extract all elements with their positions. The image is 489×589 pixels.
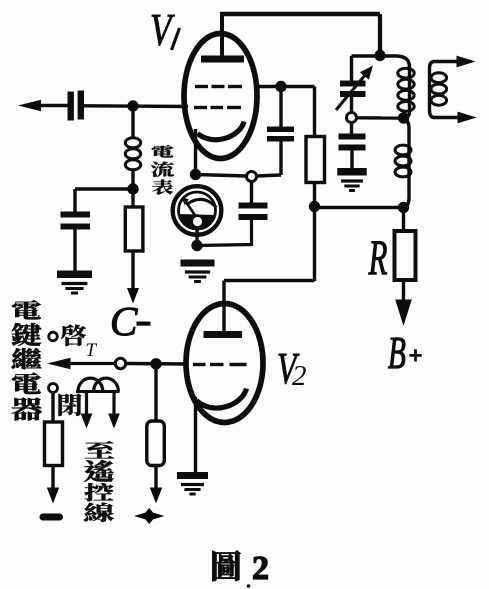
- svg-text:2: 2: [252, 550, 269, 587]
- svg-text:C: C: [110, 298, 138, 344]
- svg-text:2: 2: [292, 360, 307, 392]
- svg-text:R: R: [368, 230, 388, 285]
- svg-text:+: +: [409, 343, 422, 368]
- svg-text:T: T: [86, 340, 98, 361]
- svg-text:B: B: [388, 329, 406, 379]
